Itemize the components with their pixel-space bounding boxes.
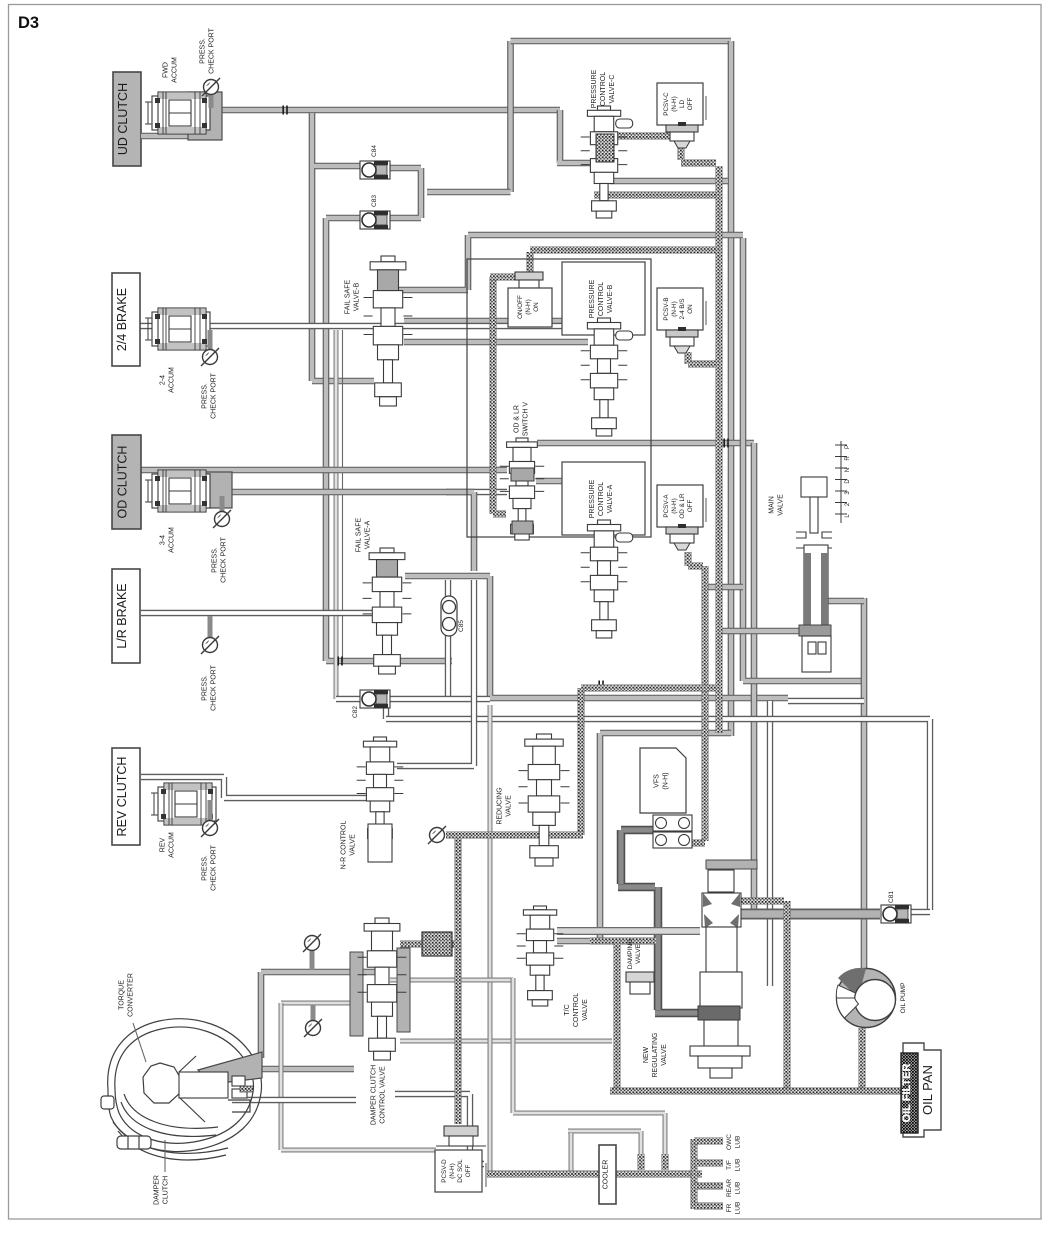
wire DCCV to cooler feed xyxy=(390,978,513,983)
svg-text:CONVERTER: CONVERTER xyxy=(127,973,134,1017)
label TORQUE CONVERTER xyxy=(119,973,135,1017)
svg-text:OD & LR: OD & LR xyxy=(514,405,521,433)
svg-text:OFF: OFF xyxy=(687,500,694,513)
hook wire PCSV-D xyxy=(485,1163,487,1187)
OD CLUTCH box xyxy=(112,435,141,529)
damping valve xyxy=(626,972,654,994)
PCSV-D valve xyxy=(436,1126,486,1146)
REV CLUTCH box xyxy=(112,748,140,845)
wire hatched DCCV link xyxy=(400,941,456,948)
svg-text:UD CLUTCH: UD CLUTCH xyxy=(116,83,130,155)
wire top bus xyxy=(511,38,732,45)
damper clutch control valve spool xyxy=(358,918,407,1060)
wire FSV-B to PCV-B lower xyxy=(404,339,588,346)
wire C81 out stub xyxy=(911,909,930,915)
VFS solenoid xyxy=(653,815,692,848)
wire C82 to return link xyxy=(383,699,389,719)
wire REV clutch line xyxy=(141,777,366,798)
svg-text:FAIL SAFE: FAIL SAFE xyxy=(356,517,363,552)
wire short link xyxy=(702,584,743,591)
new regulating valve xyxy=(690,860,757,1078)
pressure control valve A xyxy=(581,520,633,638)
hook wire PCSV-A xyxy=(705,498,707,522)
svg-text:2-4 B/S: 2-4 B/S xyxy=(679,299,686,320)
svg-text:OIL PAN: OIL PAN xyxy=(920,1065,935,1115)
PCSV-C box xyxy=(657,83,703,125)
wire mid riser x600 xyxy=(600,733,731,938)
wire hatched suction line xyxy=(610,1088,901,1095)
OD and LR switch gray collars xyxy=(511,468,534,481)
svg-text:COOLER: COOLER xyxy=(603,1160,610,1190)
wire hatched riser x787 xyxy=(784,901,791,1089)
wire cooler loop outer xyxy=(513,978,665,1169)
svg-text:PCSV-A: PCSV-A xyxy=(663,494,670,518)
svg-text:T/C: T/C xyxy=(564,1004,571,1015)
svg-text:ACCUM: ACCUM xyxy=(168,832,175,858)
svg-text:C84: C84 xyxy=(371,145,378,157)
svg-text:(N-H): (N-H) xyxy=(671,498,678,513)
check ball C85 xyxy=(441,596,457,636)
wire V3 C83 branch down to L/R bottom xyxy=(326,218,452,661)
tick marks on lines xyxy=(282,106,287,115)
label PCSV-A xyxy=(663,493,694,519)
label press check port L/R xyxy=(202,664,218,710)
svg-text:LUB: LUB xyxy=(734,1136,741,1149)
svg-text:CONTROL: CONTROL xyxy=(573,993,580,1027)
COOLER box xyxy=(599,1145,616,1204)
svg-text:CHECK PORT: CHECK PORT xyxy=(210,372,217,418)
label C84 xyxy=(371,145,378,157)
fail safe valve B xyxy=(364,256,413,406)
hook wire PCSV-B xyxy=(705,301,707,325)
label 3-4 ACCUM xyxy=(160,527,176,553)
wire N-R upper link xyxy=(397,580,474,766)
svg-text:REGULATING: REGULATING xyxy=(652,1033,659,1078)
wire PCV-C to spine xyxy=(610,178,728,185)
wire lube manifold spine xyxy=(691,1139,698,1209)
svg-text:DAMPING: DAMPING xyxy=(627,939,634,969)
wire hatched x705 xyxy=(702,566,709,841)
svg-text:ON/OFF: ON/OFF xyxy=(517,295,524,319)
pressure control valve C xyxy=(581,106,633,218)
svg-text:(N-H): (N-H) xyxy=(671,96,678,111)
svg-text:CHECK PORT: CHECK PORT xyxy=(208,27,215,73)
label press check port 2/4 xyxy=(202,372,218,418)
PCSV-A box xyxy=(657,485,703,527)
wire hatched reducing valve left xyxy=(446,832,583,839)
wire to C84 xyxy=(314,163,363,170)
svg-text:OIL FILTER: OIL FILTER xyxy=(901,1064,913,1123)
svg-text:PCSV-C: PCSV-C xyxy=(663,92,670,116)
svg-text:N: N xyxy=(845,468,851,472)
wire T/C to regulating valve xyxy=(557,927,700,935)
wire hatched lube bus xyxy=(487,1171,702,1178)
svg-text:L/R BRAKE: L/R BRAKE xyxy=(115,583,129,648)
svg-text:C82: C82 xyxy=(352,706,359,718)
wire spine2 to pump riser xyxy=(743,238,864,681)
N-R control valve xyxy=(357,737,404,845)
svg-text:C83: C83 xyxy=(371,195,378,207)
wire converter return light xyxy=(281,1001,356,1006)
svg-text:2-4: 2-4 xyxy=(160,375,167,385)
wire C84 loop to riser xyxy=(427,189,511,196)
svg-text:OIL PUMP: OIL PUMP xyxy=(900,983,907,1014)
label T/C CONTROL VALVE xyxy=(564,993,589,1027)
svg-text:CONTROL: CONTROL xyxy=(598,482,605,516)
svg-text:PCSV-D: PCSV-D xyxy=(441,1159,448,1183)
pressure check port UD xyxy=(202,78,220,108)
svg-text:NEW: NEW xyxy=(643,1046,650,1063)
label FWD ACCUM xyxy=(163,57,179,83)
wire hatched PCV-C upper xyxy=(594,133,686,140)
label press check port OD xyxy=(212,536,228,582)
svg-text:VALVE-B: VALVE-B xyxy=(353,282,360,311)
svg-text:D: D xyxy=(845,479,851,484)
svg-text:(N-H): (N-H) xyxy=(663,772,670,789)
svg-text:MAIN: MAIN xyxy=(769,496,776,514)
label OD & LR SWITCH V xyxy=(514,402,530,437)
svg-text:(N-H): (N-H) xyxy=(449,1163,456,1178)
label PCSV-C xyxy=(663,92,694,116)
svg-text:VALVE-C: VALVE-C xyxy=(609,75,616,104)
wire hatched stub to on/off valve xyxy=(527,252,534,274)
label press check port REV xyxy=(202,844,218,890)
svg-text:ON: ON xyxy=(687,304,694,314)
svg-text:(N-H): (N-H) xyxy=(525,299,532,314)
check valve reducing line xyxy=(428,826,446,844)
svg-text:ACCUM: ACCUM xyxy=(171,57,178,83)
label DAMPER CLUTCH xyxy=(154,1175,170,1205)
wire lube branch REAR xyxy=(694,1183,723,1190)
check ball C82 xyxy=(360,690,390,708)
fail safe valve A xyxy=(363,548,412,674)
svg-text:VALVE: VALVE xyxy=(505,795,512,817)
label FAIL SAFE VALVE-B xyxy=(345,279,361,314)
wire hatched VFS link xyxy=(676,840,705,847)
wire converter bottom thin xyxy=(232,1097,356,1103)
label C85 xyxy=(458,620,465,632)
svg-text:ACCUM: ACCUM xyxy=(168,367,175,393)
solenoid PCSV-C xyxy=(666,122,698,148)
pressure check port REV xyxy=(201,800,219,837)
wire regulator to C81 xyxy=(738,909,880,920)
wire thin y699 link xyxy=(336,696,490,702)
main valve xyxy=(796,477,832,672)
svg-text:ACCUM: ACCUM xyxy=(168,527,175,553)
wire hatched to reducing valve xyxy=(578,688,585,835)
svg-text:PRESSURE: PRESSURE xyxy=(591,69,598,108)
label PRESSURE CONTROL VALVE-C xyxy=(591,69,616,108)
wire hatched PCSV-B elbow xyxy=(688,352,716,364)
svg-text:VALVE-A: VALVE-A xyxy=(364,520,371,549)
label OIL PAN xyxy=(920,1065,935,1115)
wire riser at x510 xyxy=(507,41,514,192)
solenoid PCSV-A xyxy=(666,524,698,550)
svg-text:(N-H): (N-H) xyxy=(671,301,678,316)
wire converter neck line xyxy=(262,1066,354,1073)
wire hatched spine x719 xyxy=(716,166,723,733)
wire 2/4 brake line xyxy=(140,323,588,329)
label REAR LUB xyxy=(726,1179,742,1197)
wire hatched PCSV-A elbow xyxy=(688,552,703,566)
label OWC LUB xyxy=(726,1134,742,1150)
accumulator 3-4 xyxy=(145,470,232,512)
svg-text:CHECK PORT: CHECK PORT xyxy=(210,664,217,710)
wire hatched pump outlet xyxy=(859,1028,866,1089)
reducing valve xyxy=(519,734,570,866)
torque converter xyxy=(101,1019,262,1160)
check ball C83 xyxy=(360,211,390,229)
svg-text:ON: ON xyxy=(533,302,540,312)
svg-text:REV CLUTCH: REV CLUTCH xyxy=(115,757,129,837)
svg-text:SWITCH V: SWITCH V xyxy=(522,402,529,437)
oil pan xyxy=(903,1043,941,1137)
label press check port UD xyxy=(200,27,216,73)
svg-text:PRESSURE: PRESSURE xyxy=(589,279,596,318)
wire hatched tip inner loop xyxy=(638,1154,645,1170)
enclosure box PCV-A label xyxy=(562,462,645,535)
label PCSV-B xyxy=(663,297,694,320)
svg-text:PCSV-B: PCSV-B xyxy=(663,297,670,320)
label REDUCING VALVE xyxy=(497,787,513,824)
label VFS xyxy=(654,772,670,789)
svg-text:DC SOL: DC SOL xyxy=(457,1159,464,1183)
accumulator 2-4 xyxy=(145,308,210,350)
svg-text:LD: LD xyxy=(679,100,686,109)
svg-text:OD CLUTCH: OD CLUTCH xyxy=(116,446,130,519)
label FAIL SAFE VALVE-A xyxy=(356,517,372,552)
wire cooler loop inner xyxy=(568,1131,641,1171)
OD and LR switch valve xyxy=(500,438,544,540)
wire lube branch OWC xyxy=(694,1138,723,1145)
svg-text:CONTROL: CONTROL xyxy=(598,282,605,316)
svg-text:OFF: OFF xyxy=(465,1165,472,1178)
hook wire PCSV-C xyxy=(705,96,707,120)
label OIL PUMP xyxy=(900,983,907,1014)
svg-text:VALVE: VALVE xyxy=(582,999,589,1021)
accumulator FWD xyxy=(145,92,222,140)
label MAIN VALVE xyxy=(769,494,785,516)
svg-text:DAMPER: DAMPER xyxy=(154,1175,161,1205)
wire lube branch FR xyxy=(694,1203,723,1210)
accumulator REV xyxy=(151,783,216,825)
leader torque converter xyxy=(133,1023,146,1062)
label ON/OFF xyxy=(517,295,540,319)
label PRESSURE CONTROL VALVE-B xyxy=(589,279,614,318)
wire hatched drop to PCSV-D xyxy=(455,838,462,1124)
label 2-4 ACCUM xyxy=(160,367,176,393)
PCSV-B box xyxy=(657,288,703,330)
pressure check port OD xyxy=(213,496,231,528)
svg-text:N-R CONTROL: N-R CONTROL xyxy=(341,821,348,870)
oil pump xyxy=(836,968,895,1028)
svg-text:D3: D3 xyxy=(18,14,39,32)
svg-text:C81: C81 xyxy=(888,891,895,903)
wire to main valve bottom xyxy=(719,628,801,635)
svg-text:VALVE: VALVE xyxy=(661,1044,668,1066)
svg-text:VFS: VFS xyxy=(654,774,661,788)
svg-text:VALVE: VALVE xyxy=(635,943,642,964)
wire right spine x731 xyxy=(728,41,735,736)
wire N-R to C81 return xyxy=(386,719,930,910)
wire FSV-A to lower bus xyxy=(405,576,788,698)
wire thin to OD-LR switch mid xyxy=(446,489,507,495)
svg-text:CONTROL: CONTROL xyxy=(600,72,607,106)
label N-R CONTROL VALVE xyxy=(341,821,357,870)
svg-text:FR: FR xyxy=(726,1203,733,1212)
wire UD box link xyxy=(141,133,196,140)
wire DCCV to hatch riser xyxy=(400,1039,612,1044)
pressure check port 2/4 xyxy=(201,330,219,366)
label DAMPING VALVE xyxy=(627,939,642,969)
wire C85 branch xyxy=(445,580,451,699)
wire FSV-B to PCV-B upper xyxy=(404,318,588,325)
svg-text:OFF: OFF xyxy=(687,98,694,111)
label C81 xyxy=(888,891,895,903)
enclosure box PCV group xyxy=(467,259,651,537)
svg-text:PRESS.: PRESS. xyxy=(202,675,209,701)
check ball C84 xyxy=(360,161,390,179)
svg-text:2/4 BRAKE: 2/4 BRAKE xyxy=(115,288,129,351)
wire hatched bus y688 xyxy=(581,685,716,692)
L/R BRAKE box xyxy=(112,569,140,663)
label C82 xyxy=(352,706,359,718)
svg-text:OD & LR: OD & LR xyxy=(679,493,686,519)
wire hatched T/C to damping xyxy=(590,938,656,945)
wire spine3 to regulating valve xyxy=(751,443,758,911)
solenoid PCSV-B xyxy=(666,327,698,353)
T/C control valve xyxy=(517,906,564,1006)
label DAMPER CLUTCH CONTROL VALVE xyxy=(371,1065,387,1125)
on/off solenoid valve xyxy=(515,272,543,288)
label NEW REGULATING VALVE xyxy=(643,1033,668,1078)
svg-text:C85: C85 xyxy=(458,620,465,632)
label T/F LUB xyxy=(726,1159,742,1172)
wire lube branch T/F xyxy=(694,1160,723,1167)
N-R control valve barrel xyxy=(368,824,392,862)
svg-text:CLUTCH: CLUTCH xyxy=(162,1176,169,1204)
wire OD-LR switch bus xyxy=(537,440,754,447)
wire L/R brake line xyxy=(141,610,372,616)
wire hatched PCSV-C elbow xyxy=(681,144,716,163)
svg-text:P: P xyxy=(845,445,851,449)
svg-text:FWD: FWD xyxy=(163,62,170,78)
wire hatched regulator top xyxy=(728,898,784,905)
svg-text:LUB: LUB xyxy=(734,1202,741,1215)
pressure check port L/R xyxy=(201,616,219,654)
wire hatched border left xyxy=(493,277,506,514)
VFS box xyxy=(640,748,686,813)
svg-text:TORQUE: TORQUE xyxy=(119,980,126,1010)
wire thin lower bus right xyxy=(788,698,864,704)
label FR LUB xyxy=(726,1202,742,1215)
svg-text:PRESSURE: PRESSURE xyxy=(589,479,596,518)
wire hatched bus y250 xyxy=(530,247,716,254)
wire cooler circuit left vertical xyxy=(488,705,493,1171)
svg-text:PRESS.: PRESS. xyxy=(202,383,209,409)
wire converter feed xyxy=(261,972,376,1058)
hatched muffler DCCV xyxy=(422,932,452,956)
pressure check port converter 1 xyxy=(303,934,321,970)
svg-text:VALVE: VALVE xyxy=(777,494,784,516)
wire thin to regulating valve xyxy=(767,701,773,986)
leader damper clutch xyxy=(164,1140,166,1172)
svg-text:VALVE-A: VALVE-A xyxy=(607,484,614,513)
svg-text:REDUCING: REDUCING xyxy=(497,787,504,824)
wire DCCV to PCSV-D xyxy=(395,1094,484,1164)
svg-text:REV: REV xyxy=(160,837,167,852)
svg-text:VALVE: VALVE xyxy=(349,834,356,856)
wire OD accum drop xyxy=(232,492,474,571)
wire C83 out xyxy=(388,192,421,218)
svg-text:R: R xyxy=(845,456,851,461)
svg-text:T/F: T/F xyxy=(726,1160,733,1170)
svg-text:CONTROL VALVE: CONTROL VALVE xyxy=(379,1066,386,1124)
wire dark VFS loop xyxy=(618,830,698,1013)
wire UD drop to PCV-C xyxy=(557,110,592,163)
wire OD clutch line xyxy=(141,467,507,474)
wire hatched riser x617 xyxy=(614,941,621,1088)
2/4 BRAKE box xyxy=(112,273,140,366)
svg-text:PRESS.: PRESS. xyxy=(202,855,209,881)
label C83 xyxy=(371,195,378,207)
wire hatched PCV-C lower xyxy=(594,192,716,199)
check ball C81 xyxy=(881,905,911,923)
svg-text:FAIL SAFE: FAIL SAFE xyxy=(345,279,352,314)
enclosure box PCV-B label xyxy=(562,262,645,335)
UD CLUTCH box xyxy=(113,72,141,166)
svg-text:CHECK PORT: CHECK PORT xyxy=(210,844,217,890)
svg-text:PRESS.: PRESS. xyxy=(212,547,219,573)
wire hatched border top xyxy=(490,274,524,281)
labels gear positions xyxy=(845,445,851,518)
wire C84 out xyxy=(388,168,421,192)
wire light vertical x336 xyxy=(334,330,339,699)
pressure control valve B xyxy=(581,318,633,436)
svg-text:REAR: REAR xyxy=(726,1179,733,1197)
svg-text:3-4: 3-4 xyxy=(160,535,167,545)
PCSV-D box xyxy=(435,1150,482,1192)
wire T/C valve out xyxy=(557,938,596,945)
wire main valve out xyxy=(828,598,864,605)
ON/OFF box xyxy=(508,288,552,327)
gear position scale xyxy=(835,441,847,523)
oil filter xyxy=(901,1053,918,1133)
wire OD-LR switch right elbow xyxy=(536,481,569,528)
svg-text:OWC: OWC xyxy=(726,1134,733,1150)
svg-text:PRESS.: PRESS. xyxy=(200,38,207,64)
svg-text:VALVE-B: VALVE-B xyxy=(607,284,614,313)
wire FSV-B to spine xyxy=(398,235,743,290)
svg-text:LUB: LUB xyxy=(734,1182,741,1195)
damper clutch control valve xyxy=(350,948,410,1036)
svg-text:LUB: LUB xyxy=(734,1159,741,1172)
pressure check port converter 2 xyxy=(304,1005,322,1037)
svg-text:CHECK PORT: CHECK PORT xyxy=(220,536,227,582)
wire light drop to PCSV-D xyxy=(281,1003,436,1150)
svg-text:DAMPER CLUTCH: DAMPER CLUTCH xyxy=(371,1065,378,1125)
label PRESSURE CONTROL VALVE-A xyxy=(589,479,614,518)
wire UD clutch main line xyxy=(222,107,560,114)
label REV ACCUM xyxy=(160,832,176,858)
wire hairline x342 xyxy=(342,330,344,661)
wire hatched tip outer loop xyxy=(662,1154,669,1170)
wire V1 to fail safe valve B xyxy=(312,113,374,381)
wire pump riser xyxy=(861,598,868,968)
label PCSV-D xyxy=(441,1159,472,1183)
